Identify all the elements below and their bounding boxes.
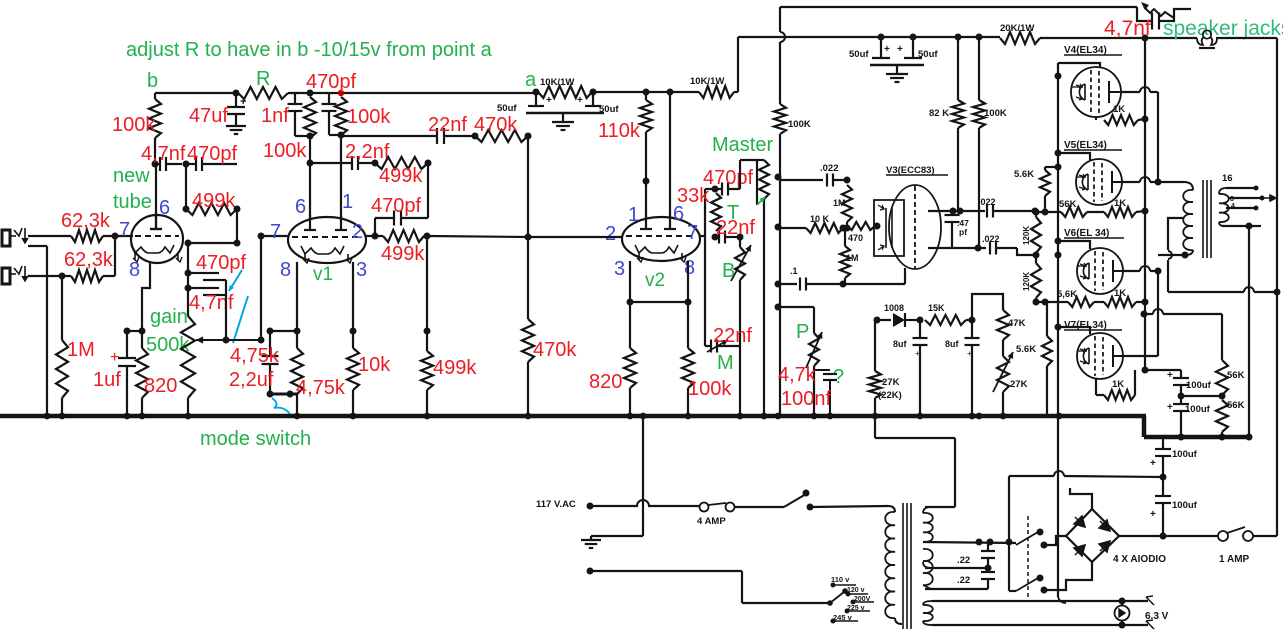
pin label 3 V1: [356, 259, 367, 281]
capacitor .022 in: [780, 163, 851, 187]
wire rail to 100uf: [1142, 367, 1182, 374]
master pot 1M: [712, 134, 773, 416]
resistor 10k: [347, 348, 391, 416]
node a label: [525, 69, 537, 91]
svg-text:100k: 100k: [263, 140, 307, 162]
wire tube1 pin7 node: [258, 233, 290, 240]
wire 470k node down: [525, 136, 532, 319]
capacitor 47uf: [189, 93, 246, 127]
resistor 10K/1W a: [538, 77, 597, 98]
svg-text:+: +: [967, 349, 972, 358]
resistor 56K lower: [1216, 400, 1245, 441]
svg-text:8: 8: [684, 257, 695, 279]
svg-text:3: 3: [614, 258, 625, 280]
svg-text:1008: 1008: [884, 303, 904, 313]
svg-text:470k: 470k: [474, 114, 518, 136]
svg-text:62,3k: 62,3k: [64, 249, 114, 271]
cyan arrow small: [229, 270, 242, 291]
pin label 8 tube1: [129, 259, 140, 281]
wire 62,3k lower to node: [103, 236, 115, 276]
capacitor 8uf 1: [893, 320, 928, 416]
svg-text:245 v: 245 v: [833, 613, 853, 622]
wire screen tap line: [1141, 309, 1223, 360]
capacitor 4,7nf mod: [1104, 9, 1191, 40]
svg-text:20K/1W: 20K/1W: [1000, 23, 1034, 34]
svg-text:5,6K: 5,6K: [1057, 289, 1077, 300]
svg-text:1K: 1K: [1114, 288, 1126, 299]
svg-text:6: 6: [159, 197, 170, 219]
svg-text:4,7k: 4,7k: [778, 364, 817, 386]
svg-text:10 K: 10 K: [810, 214, 830, 224]
svg-text:225 v: 225 v: [847, 605, 865, 612]
wire screen rail V4: [1055, 63, 1062, 471]
capacitor .22 a: [957, 542, 995, 572]
svg-text:117 V.AC: 117 V.AC: [536, 499, 576, 510]
capacitor 50uf left: [497, 92, 552, 114]
capacitor 50uf 3: [849, 37, 890, 60]
svg-text:8: 8: [129, 259, 140, 281]
triode V1: [288, 215, 366, 263]
svg-text:100nf: 100nf: [781, 388, 831, 410]
resistor 100K screen: [973, 37, 1007, 248]
label v2: [645, 270, 665, 291]
capacitor 50uf common plate: [526, 112, 604, 115]
svg-text:+: +: [1167, 402, 1173, 413]
label speaker jacks: [1163, 17, 1283, 40]
svg-text:4,75k: 4,75k: [296, 377, 346, 399]
wire grid vertical: [705, 186, 719, 347]
wire pin7 to wiper: [260, 236, 262, 340]
wire V5 plate: [1122, 177, 1184, 186]
wire V1 grid line to v2: [427, 236, 528, 237]
svg-text:.22: .22: [957, 555, 970, 566]
wire V6 plate: [1123, 266, 1162, 275]
svg-text:+: +: [546, 95, 552, 106]
pin label 1 V1: [342, 191, 353, 213]
svg-text:pf: pf: [959, 227, 967, 237]
svg-text:499k: 499k: [192, 190, 236, 212]
resistor 1M input: [56, 335, 95, 416]
wire gain wiper: [196, 336, 265, 343]
svg-text:gain: gain: [150, 306, 188, 328]
svg-text:56K: 56K: [1227, 400, 1245, 411]
wire HT tap2: [923, 539, 1016, 546]
svg-text:adjust R to have in b -10/15v: adjust R to have in b -10/15v from point…: [126, 39, 493, 61]
svg-text:(22K): (22K): [878, 390, 902, 401]
wire plate node down: [424, 236, 431, 335]
svg-text:5.6K: 5.6K: [1016, 344, 1036, 355]
node R label: [256, 68, 270, 90]
svg-text:8uf: 8uf: [945, 339, 960, 349]
svg-text:100uf: 100uf: [1172, 500, 1198, 511]
resistor 5.6K V7: [1016, 302, 1052, 416]
node b label: [147, 70, 158, 92]
capacitor 100uf 3: [1150, 439, 1198, 481]
svg-text:tube: tube: [113, 191, 152, 213]
svg-text:+: +: [897, 44, 903, 55]
pin label 6 V1: [295, 196, 306, 218]
svg-text:56K: 56K: [1059, 199, 1077, 210]
resistor 33k: [677, 185, 721, 231]
resistor 27K 22K: [869, 320, 902, 438]
wire top right corner: [1216, 38, 1277, 292]
wire jack2 to R 62,3k lower: [28, 273, 71, 280]
svg-text:.022: .022: [978, 197, 996, 207]
wire caps node line: [185, 240, 238, 247]
switch 1 AMP: [1218, 527, 1253, 565]
pot 27K: [993, 340, 1028, 416]
wire V6 top entry: [1058, 241, 1090, 249]
svg-text:2: 2: [352, 221, 363, 243]
resistor 100k V1a: [263, 97, 316, 163]
resistor 82K: [929, 37, 964, 211]
resistor 10K/1W 2: [690, 76, 734, 98]
capacitor 50uf 4: [897, 37, 938, 60]
svg-text:a: a: [525, 69, 537, 91]
wire fuse to switch: [734, 506, 784, 508]
svg-text:8: 8: [280, 259, 291, 281]
row V6 cathode: [1033, 288, 1149, 307]
svg-text:470pf: 470pf: [187, 143, 237, 165]
svg-text:7: 7: [687, 222, 698, 244]
resistor 15K: [917, 303, 976, 325]
svg-text:82 K: 82 K: [929, 108, 949, 119]
svg-text:+: +: [1150, 509, 1156, 520]
capacitor .1: [780, 266, 843, 291]
capacitor 8uf 2: [945, 320, 980, 416]
wire V1 cathode right: [350, 262, 357, 348]
svg-text:62,3k: 62,3k: [61, 210, 111, 232]
wire 100uf node: [1181, 395, 1222, 397]
svg-text:4,75k: 4,75k: [230, 345, 280, 367]
cyan mode switch mark: [272, 398, 290, 414]
resistor 1K V4: [1096, 104, 1149, 125]
wire cathode rail: [1144, 38, 1146, 370]
bridge rectifier: [1066, 509, 1166, 565]
transformer OT secondary: [1219, 188, 1229, 226]
transformer PT secondary HT: [923, 507, 933, 589]
wire pin6 v2: [669, 92, 671, 219]
pilot lamp 6.3V: [1115, 601, 1169, 625]
heater line top: [932, 596, 1154, 605]
wire jack ground drops: [28, 246, 62, 416]
capacitor .47pf: [945, 211, 970, 248]
capacitor 100uf 4: [1150, 477, 1198, 536]
row V7 cathode: [1096, 370, 1135, 400]
svg-text:.022: .022: [982, 234, 1000, 244]
svg-text:47uf: 47uf: [189, 105, 228, 127]
resistor 820 tube1: [136, 331, 177, 416]
svg-text:2,2uf: 2,2uf: [229, 369, 274, 391]
wire V1 plate node: [366, 233, 383, 240]
wire rect feed lower: [1009, 590, 1016, 592]
svg-text:1 AMP: 1 AMP: [1219, 554, 1250, 565]
svg-text:speaker jacks: speaker jacks: [1163, 17, 1283, 40]
capacitor 100uf 2: [1167, 396, 1211, 441]
pin label 1 v2: [628, 204, 639, 226]
transformer PT core: [903, 503, 911, 629]
label mode switch: [200, 428, 311, 450]
resistor 62,3k upper: [61, 210, 111, 242]
resistor 100k v2: [682, 348, 732, 416]
svg-text:Master: Master: [712, 134, 773, 156]
pin label 7 v2: [687, 222, 698, 244]
input jack J2: [2, 266, 28, 284]
resistor 110k: [598, 92, 652, 142]
wire gnd drop: [591, 418, 643, 536]
wire NFB line: [1168, 287, 1281, 296]
capacitor 22nf coupling: [341, 114, 479, 144]
svg-text:110k: 110k: [598, 120, 641, 142]
svg-text:470pf: 470pf: [196, 252, 246, 274]
svg-text:22nf: 22nf: [716, 217, 755, 239]
OT center tap: [1168, 218, 1184, 292]
capacitor 100nf mod: [778, 364, 844, 416]
switch HT a: [1016, 529, 1066, 549]
resistor 1M V3 grid: [833, 185, 852, 228]
wire to node 7: [103, 233, 133, 240]
resistor 10 K: [780, 214, 851, 233]
wire 1AMP to edge: [1253, 292, 1277, 536]
wire P pot feed: [780, 306, 814, 308]
pin label 7 tube1: [119, 219, 130, 241]
svg-text:470pf: 470pf: [703, 167, 753, 189]
ground mains: [581, 536, 601, 548]
resistor 470k to bus: [522, 319, 577, 416]
resistor 499k cathode load: [421, 331, 477, 416]
ground 50uf pair 2: [886, 65, 908, 82]
svg-text:B: B: [722, 260, 735, 282]
svg-text:+: +: [884, 44, 890, 55]
svg-text:120K: 120K: [1022, 226, 1031, 245]
svg-text:22nf: 22nf: [713, 325, 752, 347]
wire pin6 tube1: [155, 164, 157, 217]
svg-text:4,7nf: 4,7nf: [141, 143, 186, 165]
svg-text:100k: 100k: [688, 378, 732, 400]
svg-text:200V: 200V: [854, 596, 871, 603]
transformer OT primary: [1183, 182, 1193, 255]
triode V2: [622, 215, 700, 262]
wire a to 110k: [593, 89, 699, 96]
svg-text:b: b: [147, 70, 158, 92]
wire pin1 V1: [340, 135, 342, 218]
svg-text:6.3 V: 6.3 V: [1145, 611, 1169, 622]
annotation adjust R: [126, 39, 493, 61]
svg-text:M: M: [717, 352, 734, 374]
capacitor 2,2nf: [310, 141, 390, 170]
resistor 820 v2: [589, 348, 636, 416]
wire master top feed: [740, 160, 757, 189]
svg-text:100k: 100k: [347, 106, 391, 128]
speaker jack symbol: [1197, 30, 1217, 48]
wire top right step: [1137, 7, 1152, 21]
svg-text:100k: 100k: [112, 114, 156, 136]
switch mains: [784, 490, 888, 511]
svg-text:+: +: [1167, 370, 1173, 381]
wire 100uf3 node: [1009, 471, 1163, 477]
wire pin6 V1 drop: [309, 163, 311, 218]
pin label 2 V1: [352, 221, 363, 243]
svg-text:+: +: [110, 349, 119, 366]
wire rail b: [307, 90, 537, 97]
wire top B+ line: [780, 6, 1137, 8]
wire tube1 cathode: [139, 261, 151, 335]
tube V4 EL34: [1064, 45, 1122, 117]
ground bus jog: [1144, 416, 1251, 437]
svg-text:499k: 499k: [381, 243, 425, 265]
svg-text:.22: .22: [957, 575, 970, 586]
svg-text:mode switch: mode switch: [200, 428, 311, 450]
svg-text:1M: 1M: [833, 198, 846, 208]
svg-text:1K: 1K: [1114, 198, 1126, 209]
ground 47uf: [226, 126, 246, 134]
wire 100k to caps: [152, 138, 159, 168]
svg-text:+: +: [1150, 458, 1156, 469]
svg-text:1: 1: [628, 204, 639, 226]
capacitor 470pf V1: [306, 71, 356, 135]
capacitor 470pf bright: [703, 167, 753, 196]
pot B 220k: [722, 237, 751, 416]
wire 1uf branch: [124, 328, 143, 359]
svg-text:7: 7: [270, 221, 281, 243]
svg-text:3: 3: [356, 259, 367, 281]
wire 470pf join: [329, 134, 341, 136]
wire 2,2uf branch top: [267, 328, 298, 357]
wire mains live: [587, 500, 701, 510]
capacitor 50uf right: [577, 92, 619, 115]
capacitor 1uf: [93, 349, 136, 416]
svg-text:120K: 120K: [1022, 272, 1031, 291]
svg-text:.022: .022: [820, 163, 839, 174]
tube V6 EL34: [1064, 228, 1124, 294]
label 16 ohm: [1222, 173, 1233, 184]
heater line bottom: [932, 620, 1154, 629]
wire bias feed: [875, 438, 955, 507]
wire V5 top entry: [1058, 153, 1090, 160]
svg-text:820: 820: [144, 375, 177, 397]
gain pot 500k: [146, 306, 195, 416]
pin label 6 v2: [673, 203, 684, 225]
svg-text:820: 820: [589, 371, 622, 393]
capacitor 2,2uf: [229, 345, 280, 394]
svg-text:1M: 1M: [846, 253, 859, 263]
ground 50uf pair: [552, 113, 574, 130]
resistor 470k coupling: [474, 114, 532, 142]
wire feedback vertical: [775, 7, 786, 416]
label 117VAC: [536, 499, 576, 510]
switch HT gang: [1027, 516, 1029, 600]
svg-text:110 v: 110 v: [831, 575, 850, 584]
ground bus main: [0, 414, 1146, 419]
pin label 6 tube1: [159, 197, 170, 219]
wire grid caps left rail: [187, 243, 189, 310]
wire V7 top entry: [1058, 327, 1090, 334]
switch HT b: [1016, 562, 1092, 594]
svg-text:27K: 27K: [1010, 379, 1028, 390]
capacitor 4,7nf grid: [141, 143, 190, 171]
resistor 4,75k cathode: [291, 348, 346, 416]
wire bridge out: [1119, 533, 1218, 540]
cyan arrow long: [233, 296, 248, 343]
svg-text:4,7nf: 4,7nf: [189, 292, 234, 314]
tube V5 EL34: [1064, 140, 1122, 205]
transformer PT primary: [885, 506, 902, 624]
wire mains neutral: [587, 568, 829, 604]
tube V3 ECC83: [874, 165, 948, 269]
transformer OT core: [1203, 180, 1211, 258]
svg-text:+: +: [915, 349, 920, 358]
resistor 100k V1b: [335, 97, 391, 139]
svg-text:7: 7: [119, 219, 130, 241]
svg-text:?: ?: [833, 366, 844, 388]
capacitor 100uf 1: [1167, 370, 1212, 400]
svg-text:1uf: 1uf: [93, 369, 121, 391]
svg-text:500k: 500k: [146, 334, 190, 356]
svg-text:10K/1W: 10K/1W: [690, 76, 724, 87]
wire bridge top: [1070, 488, 1092, 509]
svg-text:+: +: [577, 95, 583, 106]
wire v2 cathode join: [630, 301, 688, 303]
wire V3 grid: [875, 225, 877, 227]
row V5 cathode: [1033, 198, 1149, 217]
svg-text:50uf: 50uf: [918, 49, 938, 60]
triode U1 new tube: [131, 213, 183, 263]
annotation new tube: [113, 165, 152, 213]
svg-text:27K: 27K: [882, 377, 900, 388]
svg-text:100uf: 100uf: [1172, 449, 1198, 460]
capacitor 470pf grid: [186, 143, 237, 171]
pin label 8 V1: [280, 259, 291, 281]
svg-text:4 X AIODIO: 4 X AIODIO: [1113, 554, 1166, 565]
wire caps right side: [219, 280, 226, 340]
wire 110k to pin1: [643, 132, 650, 219]
voltage selector: [827, 575, 874, 624]
resistor 120K a: [1022, 212, 1041, 259]
wire 499k down to plate: [427, 163, 429, 218]
OT secondary taps: [1222, 186, 1276, 230]
svg-text:8uf: 8uf: [893, 339, 908, 349]
wire 499k down: [234, 209, 241, 247]
resistor 100K feedback: [774, 104, 811, 134]
svg-text:100uf: 100uf: [1185, 404, 1211, 415]
svg-text:6: 6: [295, 196, 306, 218]
svg-text:47K: 47K: [1008, 318, 1026, 329]
svg-text:100K: 100K: [788, 119, 811, 130]
svg-text:499k: 499k: [433, 357, 477, 379]
wire V1 cathode left: [294, 262, 301, 348]
wire B+ line right: [1040, 35, 1197, 42]
svg-text:56K: 56K: [1227, 370, 1245, 381]
wire v2 cathode left: [627, 261, 634, 348]
resistor 120K b: [1022, 253, 1041, 302]
svg-text:2,2nf: 2,2nf: [345, 141, 390, 163]
svg-text:1: 1: [342, 191, 353, 213]
svg-text:50uf: 50uf: [497, 103, 517, 114]
wire v2 pin7 stub: [700, 235, 705, 237]
wire V4 plate: [1121, 87, 1158, 181]
svg-text:8: 8: [1230, 196, 1234, 203]
svg-text:15K: 15K: [928, 303, 945, 313]
wire V7 plate: [1123, 270, 1158, 356]
svg-text:470pf: 470pf: [306, 71, 356, 93]
pin label 7 V1: [270, 221, 281, 243]
resistor 62,3k lower: [64, 249, 114, 282]
svg-text:50uf: 50uf: [849, 49, 869, 60]
svg-text:v1: v1: [313, 264, 333, 285]
capacitor 470pf plate: [371, 195, 428, 236]
resistor 47K: [997, 310, 1026, 340]
wire rect feed upper: [1006, 476, 1013, 591]
